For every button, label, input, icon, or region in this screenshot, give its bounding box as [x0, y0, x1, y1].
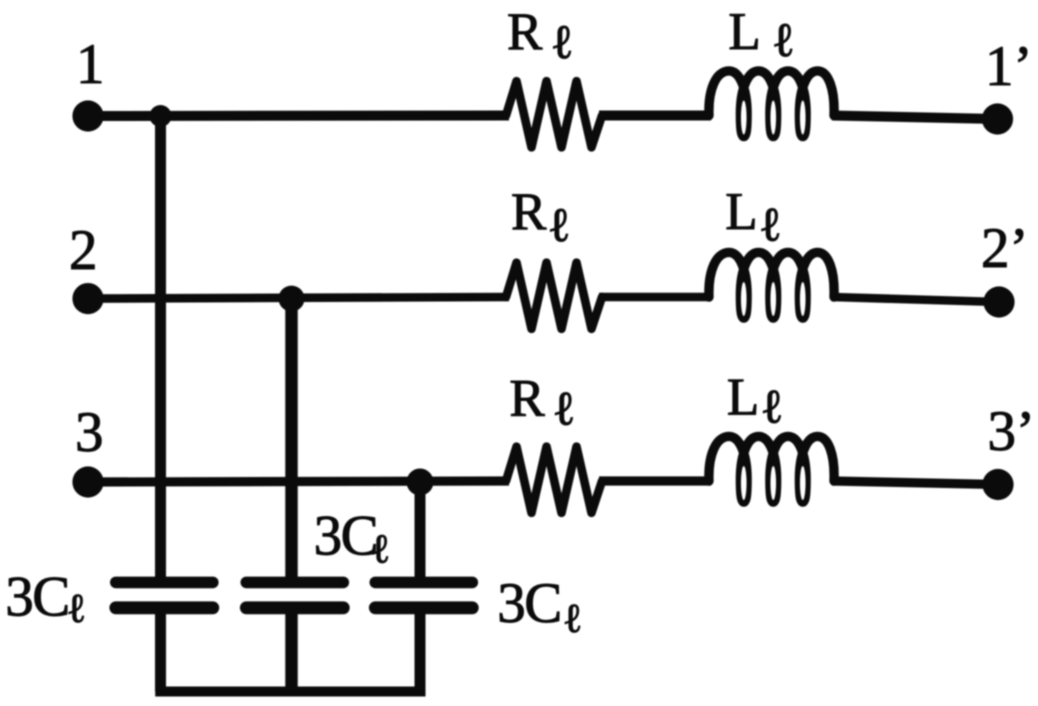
label R_l row 2 [511, 183, 571, 252]
label R_l row 1 [507, 3, 574, 69]
svg-text:3C: 3C [5, 566, 69, 629]
terminal 1&apos; (output) [982, 103, 1013, 134]
svg-text:ℓ: ℓ [551, 16, 574, 69]
svg-text:R: R [511, 183, 547, 241]
inductor L3 (L_l) [709, 436, 834, 502]
node label 1&apos; [985, 35, 1032, 98]
svg-text:ℓ: ℓ [371, 526, 391, 572]
svg-text:ℓ: ℓ [759, 199, 782, 252]
label R_l row 3 [509, 370, 575, 436]
node label 3&apos; [988, 400, 1035, 463]
node label 2&apos; [981, 217, 1028, 280]
node label 3 [75, 401, 104, 464]
svg-text:3: 3 [75, 401, 104, 464]
label L_l row 1 [728, 3, 794, 67]
terminal 1 (input) [72, 100, 103, 131]
wire phase 3: resistor to inductor [599, 476, 711, 485]
svg-text:L: L [728, 3, 760, 61]
svg-text:2’: 2’ [981, 217, 1028, 280]
resistor R3 (R_l) [506, 447, 602, 513]
node label 1 [76, 33, 105, 96]
wire phase 3: inductor to output terminal [832, 481, 998, 485]
wire: phase 2 junction down to capacitor C2 [285, 299, 298, 579]
label 3C_l middle capacitor [314, 505, 391, 572]
svg-text:ℓ: ℓ [552, 382, 575, 435]
junction node on phase 1 [150, 105, 172, 127]
terminal 3 (input) [72, 466, 103, 497]
wire phase 2: resistor to inductor [599, 293, 711, 302]
node label 2 [69, 219, 98, 282]
label L_l row 3 [727, 369, 784, 434]
junction node on phase 3 [407, 469, 434, 496]
capacitor C3 (3C_l) [375, 582, 472, 607]
resistor R1 (R_l) [506, 81, 602, 147]
svg-text:2: 2 [69, 219, 98, 282]
svg-text:1’: 1’ [985, 35, 1032, 98]
resistor R2 (R_l) [506, 263, 602, 329]
svg-text:R: R [509, 370, 545, 428]
junction node on phase 2 [279, 286, 305, 312]
wire phase 2: input terminal to resistor [88, 297, 509, 299]
terminal 2 (input) [72, 283, 103, 314]
label 3C_l left capacitor [5, 566, 86, 631]
wire phase 1: resistor to inductor [599, 111, 711, 121]
svg-text:3C: 3C [497, 572, 561, 635]
svg-text:3’: 3’ [988, 400, 1035, 463]
svg-text:L: L [725, 183, 757, 241]
svg-text:ℓ: ℓ [67, 585, 87, 631]
svg-text:ℓ: ℓ [760, 381, 783, 434]
label L_l row 2 [725, 183, 782, 252]
wire: phase 1 junction down to capacitor C1 [155, 116, 166, 578]
capacitor C1 (3C_l) [116, 582, 213, 607]
label 3C_l right capacitor [497, 572, 582, 641]
wire: capacitor C3 down to common bus [415, 612, 426, 692]
wire: capacitor C2 down to common bus [285, 612, 298, 692]
wire phase 1: inductor to output terminal [832, 116, 998, 120]
svg-text:R: R [507, 3, 543, 61]
svg-text:1: 1 [76, 33, 105, 96]
wire: capacitor C1 down to common bus [155, 612, 166, 692]
wire: phase 3 junction down to capacitor C3 [415, 482, 426, 578]
inductor L1 (L_l) [709, 71, 834, 137]
capacitor C2 (3C_l) [246, 582, 343, 607]
inductor L2 (L_l) [709, 252, 834, 318]
wire phase 2: inductor to output terminal [832, 297, 999, 302]
wire phase 1: input terminal to resistor [88, 111, 509, 122]
common bus wire joining the three capacitors [155, 687, 425, 697]
svg-text:L: L [727, 369, 759, 427]
svg-text:ℓ: ℓ [563, 595, 583, 641]
terminal 3&apos; (output) [982, 469, 1013, 500]
svg-text:ℓ: ℓ [548, 199, 571, 252]
terminal 2&apos; (output) [983, 286, 1014, 317]
wire phase 3: input terminal to resistor [88, 481, 509, 482]
svg-text:3C: 3C [314, 505, 378, 568]
svg-text:ℓ: ℓ [772, 14, 795, 67]
